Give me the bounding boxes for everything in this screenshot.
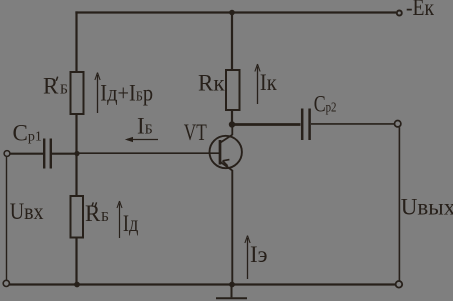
svg-text:Iэ: Iэ <box>250 242 268 267</box>
svg-text:Iд+IБр: Iд+IБр <box>100 80 153 105</box>
resistor R''B <box>71 196 84 238</box>
wire left column lower (R''B to bottom rail) <box>75 238 77 285</box>
wire left column upper (top rail to R'B) <box>75 11 77 72</box>
wire input to Cp1 <box>10 153 43 155</box>
wire emitter column <box>231 170 233 284</box>
transistor VT <box>210 126 242 171</box>
arrow current Ik <box>255 64 260 104</box>
node emitter bottom junction <box>229 282 235 288</box>
wire output column right <box>398 127 400 281</box>
svg-text:Iд: Iд <box>123 211 139 236</box>
node base junction <box>74 151 79 156</box>
svg-text:VT: VT <box>184 120 207 145</box>
terminal output bottom <box>396 281 403 288</box>
svg-text:-Ек: -Ек <box>406 0 435 20</box>
arrow current Id <box>117 201 122 238</box>
wire top rail from R'B top to -Ek terminal <box>75 11 396 13</box>
arrow current Ib <box>125 137 158 142</box>
svg-text:Uвых: Uвых <box>401 195 453 220</box>
node collector junction <box>229 121 235 127</box>
node R''B bottom junction <box>74 282 80 288</box>
wire Cp2 to output terminal <box>311 123 394 125</box>
wire base node to VT base <box>77 152 220 154</box>
terminal -Ek <box>397 11 402 16</box>
svg-text:Rк: Rк <box>198 70 225 95</box>
node collector top junction <box>229 10 235 16</box>
wire collector node to Cp2 <box>232 123 301 126</box>
wire top rail to Rk <box>231 13 233 71</box>
terminal input top <box>4 151 10 157</box>
wire Cp1 to base node <box>52 153 77 155</box>
resistor Rk <box>226 70 240 110</box>
capacitor Cp1 <box>44 139 51 169</box>
svg-text:Uвх: Uвх <box>10 199 44 224</box>
wire bottom rail <box>10 283 396 285</box>
capacitor Cp2 <box>302 109 309 141</box>
svg-text:Iк: Iк <box>260 70 278 95</box>
terminal input bottom <box>3 280 9 286</box>
wire input column left <box>6 157 8 281</box>
arrow current Ie <box>245 236 250 280</box>
wire left column middle (R'B to R''B through base node) <box>75 114 77 196</box>
resistor R'B <box>71 72 84 114</box>
wire Rk to collector node <box>231 110 233 122</box>
terminal output top <box>395 121 401 127</box>
ground <box>216 285 247 299</box>
arrow current Id+Ibr <box>95 73 100 114</box>
